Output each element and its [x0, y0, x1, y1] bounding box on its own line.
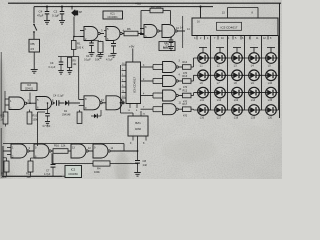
svg-text:L15: L15 — [268, 98, 273, 102]
svg-text:R10: R10 — [33, 115, 38, 118]
svg-text:L18: L18 — [234, 116, 239, 120]
svg-text:SP: SP — [79, 10, 83, 14]
svg-text:L12: L12 — [217, 98, 222, 102]
svg-text:C7 1µF: C7 1µF — [43, 125, 51, 128]
svg-text:L16: L16 — [200, 116, 205, 120]
svg-text:CD4001: CD4001 — [107, 15, 118, 19]
svg-text:C1: C1 — [86, 54, 90, 58]
svg-text:C4: C4 — [53, 94, 57, 98]
svg-text:L19: L19 — [251, 116, 256, 120]
svg-text:IC3: IC3 — [27, 84, 32, 87]
svg-text:R14: R14 — [183, 61, 188, 64]
svg-text:C9: C9 — [50, 61, 54, 65]
svg-text:IC2: IC2 — [71, 168, 76, 172]
svg-text:100k: 100k — [94, 170, 100, 174]
svg-text:+9V: +9V — [135, 2, 142, 6]
svg-text:L20: L20 — [268, 116, 273, 120]
svg-text:470: 470 — [183, 114, 188, 117]
svg-text:R11: R11 — [0, 115, 5, 118]
svg-text:L14: L14 — [251, 98, 256, 102]
svg-text:4.7µF: 4.7µF — [44, 173, 51, 176]
svg-text:C8: C8 — [143, 159, 147, 163]
svg-text:C7: C7 — [46, 169, 50, 173]
svg-text:12k: 12k — [27, 175, 32, 179]
svg-text:4.5: 4.5 — [30, 47, 34, 51]
svg-text:R13: R13 — [183, 75, 188, 78]
svg-text:BZ1: BZ1 — [135, 121, 141, 125]
svg-text:0.1 µF: 0.1 µF — [49, 66, 56, 69]
svg-text:CD4069: CD4069 — [68, 172, 78, 176]
svg-text:IC4: IC4 — [165, 43, 170, 46]
svg-text:R6: R6 — [127, 27, 131, 31]
svg-text:+9V: +9V — [129, 45, 134, 49]
svg-text:R15: R15 — [1, 172, 6, 176]
svg-text:47µF: 47µF — [37, 14, 44, 18]
svg-text:R4: R4 — [97, 167, 101, 171]
svg-text:L11: L11 — [200, 98, 205, 102]
svg-text:IC5 CD4017: IC5 CD4017 — [220, 25, 237, 29]
svg-text:1N4148: 1N4148 — [62, 114, 71, 117]
svg-text:10K: 10K — [95, 58, 100, 62]
svg-text:R1: R1 — [77, 42, 81, 46]
svg-text:CD4011: CD4011 — [25, 88, 34, 90]
svg-text:R2: R2 — [96, 54, 100, 58]
svg-text:12k: 12k — [61, 144, 66, 148]
svg-text:L10: L10 — [268, 81, 273, 85]
svg-text:PB: PB — [31, 42, 35, 46]
svg-text:CD4011: CD4011 — [163, 48, 172, 50]
svg-text:0.1µF: 0.1µF — [84, 58, 91, 62]
svg-text:R17: R17 — [183, 103, 188, 106]
svg-text:L13: L13 — [234, 98, 239, 102]
svg-text:C6: C6 — [108, 54, 112, 58]
svg-text:4.7µF: 4.7µF — [106, 58, 113, 62]
svg-text:R8 100k: R8 100k — [151, 5, 162, 9]
svg-text:1nF: 1nF — [143, 163, 148, 167]
svg-text:IC6 CD4017: IC6 CD4017 — [133, 77, 137, 93]
svg-text:R12: R12 — [183, 89, 188, 92]
svg-text:R16: R16 — [54, 144, 59, 148]
svg-text:0.1µF: 0.1µF — [58, 95, 65, 98]
svg-text:1M: 1M — [0, 119, 3, 122]
svg-text:100K: 100K — [1, 175, 7, 179]
svg-text:4060: 4060 — [135, 127, 142, 131]
svg-text:100 K: 100 K — [77, 47, 84, 50]
svg-text:100K: 100K — [33, 119, 39, 122]
svg-text:L17: L17 — [217, 116, 222, 120]
svg-text:0.1µF: 0.1µF — [52, 14, 59, 18]
svg-text:R12: R12 — [26, 172, 31, 176]
